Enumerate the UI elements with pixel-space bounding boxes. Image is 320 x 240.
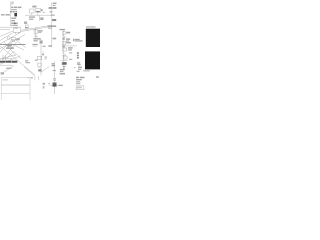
label dash row xyxy=(32,44,37,45)
device box V4b xyxy=(63,48,67,51)
label row 1 xyxy=(11,7,21,9)
label dash right xyxy=(59,85,63,86)
wire cross E1b parallel xyxy=(24,67,35,76)
wire up-right G2 xyxy=(0,56,21,64)
busbar L1 xyxy=(10,2,12,26)
photo panel 2 xyxy=(85,51,100,69)
marks below cluster xyxy=(63,66,66,67)
legend box xyxy=(76,86,84,90)
wire sloping feeder pair xyxy=(21,25,52,30)
motor M1 blob xyxy=(52,82,56,86)
marks below V4a xyxy=(62,45,65,47)
wire cross E3 xyxy=(0,40,12,52)
wire cross E1 long xyxy=(0,46,35,75)
label tiny top xyxy=(11,2,13,5)
overload F2 box xyxy=(37,56,41,59)
label right3 xyxy=(66,42,73,51)
corner box X0 xyxy=(25,25,28,28)
label marks mid xyxy=(6,68,11,69)
dark cluster xyxy=(62,62,67,65)
wire dash right xyxy=(66,45,77,47)
faint dots left xyxy=(43,86,45,89)
label row 2 xyxy=(11,9,17,10)
wire dash bottom xyxy=(27,77,33,79)
tiny mark far right xyxy=(96,76,99,78)
title block table xyxy=(1,78,30,100)
wire horizontal above band xyxy=(0,58,13,60)
dark speck xyxy=(14,23,16,25)
label right xyxy=(43,46,46,47)
coil K4 box xyxy=(62,32,65,35)
device K2 box xyxy=(34,30,38,33)
switch marks xyxy=(62,35,66,38)
small mark xyxy=(43,83,45,85)
label left bracket xyxy=(1,14,5,15)
wire drop K1 xyxy=(39,15,41,21)
photo panel 1 xyxy=(86,29,100,47)
labels below photo2 xyxy=(74,64,82,72)
label pair right xyxy=(60,69,65,70)
label right2 xyxy=(66,38,70,40)
table row1 faint text xyxy=(2,79,8,80)
wire jog xyxy=(36,39,41,40)
arrow dashes left of photo 1 xyxy=(73,39,82,42)
diag rising to V3 xyxy=(41,67,50,73)
wire peak right xyxy=(14,51,22,58)
faint block below xyxy=(77,62,80,65)
labels along V2 xyxy=(48,3,57,47)
junction box on wire xyxy=(54,78,56,80)
symbol marks xyxy=(62,52,66,55)
device box V4a xyxy=(62,42,66,45)
wire drop Q2 xyxy=(37,12,39,15)
T cross xyxy=(61,60,68,62)
label below V4 xyxy=(60,73,65,75)
label rows xyxy=(33,38,40,41)
wire feed 2 xyxy=(0,28,10,30)
fuse F1 dark block xyxy=(14,13,17,16)
dash label xyxy=(53,70,56,71)
wire diag F xyxy=(1,66,14,75)
dark core xyxy=(53,83,56,85)
small dark dash xyxy=(63,63,67,65)
stubs under X1 xyxy=(16,32,19,34)
photo caption 1 xyxy=(86,26,96,27)
vertical feeder V2 xyxy=(51,2,53,46)
label above breakers xyxy=(32,6,36,8)
wire fan A xyxy=(0,32,14,40)
lamp H1 xyxy=(7,37,10,40)
legend rows bottom-right xyxy=(76,77,84,85)
faint mark left xyxy=(48,83,50,84)
wire xyxy=(40,43,42,75)
faint labels right of chain xyxy=(45,57,48,58)
watermark dark band xyxy=(0,61,17,63)
main bus dark xyxy=(0,44,26,46)
wire drop Q1 xyxy=(31,13,33,15)
label right xyxy=(66,32,70,34)
wire fan D xyxy=(0,35,25,49)
wire cross E2 xyxy=(4,42,16,56)
label top xyxy=(60,29,66,30)
dark marks xyxy=(38,70,41,72)
label left pair xyxy=(35,60,38,61)
device box V4c xyxy=(63,56,67,59)
breaker Q1 box xyxy=(30,9,34,13)
distribution box X1 xyxy=(14,27,21,32)
contact marks xyxy=(38,67,42,70)
earth cross xyxy=(50,84,61,86)
switch S1 xyxy=(34,34,38,36)
wire dash xyxy=(33,45,37,47)
wire under band xyxy=(0,64,12,66)
wire fan B xyxy=(0,32,21,44)
terminal blocks V6 xyxy=(77,52,79,58)
wire xyxy=(54,62,56,95)
bottom faint row xyxy=(10,24,18,27)
wire horizontal bus xyxy=(25,14,52,16)
terminal dash row xyxy=(10,11,17,12)
faint labels mid xyxy=(69,52,72,53)
terminal ticks xyxy=(3,55,6,61)
marks along busbar xyxy=(11,18,17,25)
device box lower xyxy=(38,63,42,66)
wire up-right G1 xyxy=(0,55,16,59)
corner text xyxy=(1,72,4,74)
label row under bus xyxy=(6,47,14,49)
wire xyxy=(35,28,37,40)
wire peak left xyxy=(6,51,14,59)
label above corner box xyxy=(24,21,27,24)
tick cluster on bus xyxy=(7,45,12,47)
terminal ticks bottom xyxy=(35,76,39,80)
symbol pair xyxy=(62,38,64,40)
device on drop xyxy=(40,17,43,20)
plus labels xyxy=(52,63,55,66)
label rows below bus xyxy=(29,16,35,19)
small mark right xyxy=(41,9,43,11)
wire branch to SE 1 xyxy=(16,40,26,48)
short faint stub xyxy=(42,51,44,54)
wire left feed xyxy=(0,26,14,28)
dark text in Q2 xyxy=(36,11,40,12)
table caption dash xyxy=(31,77,33,78)
breaker Q2 box xyxy=(36,8,41,12)
wire fan C xyxy=(0,31,13,36)
label + small box right of lamp xyxy=(11,38,15,40)
relay K3 box xyxy=(40,41,43,44)
wire cross E4 xyxy=(2,42,17,60)
wire xyxy=(63,30,65,69)
caption under photo 2 xyxy=(83,70,90,71)
wire branch to SE 2 xyxy=(10,43,24,50)
label above X1 xyxy=(14,25,18,26)
label right of K2 xyxy=(38,30,42,31)
